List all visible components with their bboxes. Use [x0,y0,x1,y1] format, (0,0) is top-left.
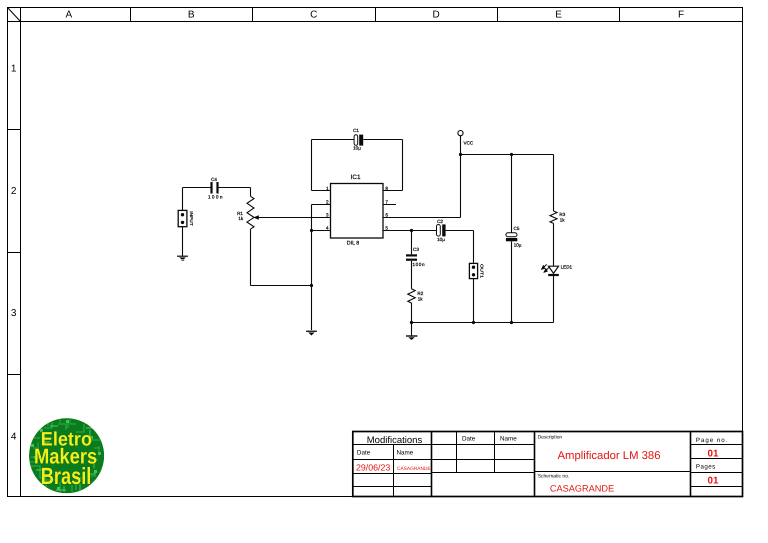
svg-text:100n: 100n [413,262,425,267]
svg-text:C5: C5 [514,226,520,231]
svg-text:3: 3 [11,308,17,319]
svg-text:C1: C1 [353,128,359,133]
svg-text:R2: R2 [417,291,423,296]
svg-text:01: 01 [708,476,719,487]
svg-text:10µ: 10µ [437,237,445,242]
svg-text:10µ: 10µ [353,145,361,150]
svg-text:3: 3 [326,213,329,218]
svg-text:Description: Description [538,435,563,441]
svg-text:D: D [432,10,439,21]
svg-text:B: B [188,10,195,21]
svg-text:4: 4 [326,225,329,230]
svg-text:VCC: VCC [464,141,474,146]
svg-text:DIL 8: DIL 8 [347,240,359,246]
svg-text:1k: 1k [560,217,566,222]
svg-text:R3: R3 [559,212,565,217]
svg-text:1k: 1k [238,216,244,221]
svg-text:C2: C2 [437,219,443,224]
svg-text:6: 6 [385,213,388,218]
svg-text:C4: C4 [211,177,217,182]
svg-text:LED1: LED1 [561,265,573,270]
svg-text:Schematic no.: Schematic no. [538,474,570,480]
svg-text:2: 2 [11,186,17,197]
svg-text:Pages: Pages [696,463,715,470]
svg-text:Page no.: Page no. [696,437,728,444]
svg-text:Brasil: Brasil [41,463,92,489]
svg-text:7: 7 [385,199,388,204]
svg-text:8: 8 [385,186,388,191]
svg-text:1: 1 [11,64,17,75]
svg-text:A: A [65,10,72,21]
svg-text:4: 4 [11,432,17,443]
svg-text:100n: 100n [208,195,223,200]
svg-text:OUT1: OUT1 [480,264,485,279]
svg-text:C: C [310,10,317,21]
svg-text:IC1: IC1 [351,174,361,181]
svg-text:2: 2 [326,199,329,204]
svg-text:Amplificador LM 386: Amplificador LM 386 [558,450,661,462]
svg-text:Name: Name [500,436,517,443]
svg-text:29/06/23: 29/06/23 [356,462,390,472]
svg-text:CASAGRANDE: CASAGRANDE [397,466,431,472]
svg-text:INPUT: INPUT [189,211,194,226]
svg-text:CASAGRANDE: CASAGRANDE [550,484,614,494]
svg-text:01: 01 [708,449,719,460]
svg-text:Date: Date [357,450,371,457]
svg-text:C3: C3 [413,247,419,252]
svg-text:Modifications: Modifications [367,435,423,446]
svg-text:F: F [678,10,684,21]
svg-text:5: 5 [385,225,388,230]
svg-text:10µ: 10µ [514,242,522,247]
svg-text:1k: 1k [418,296,424,301]
svg-text:E: E [555,10,562,21]
svg-text:Name: Name [397,450,414,457]
svg-text:Date: Date [462,436,476,443]
svg-text:1: 1 [326,186,329,191]
